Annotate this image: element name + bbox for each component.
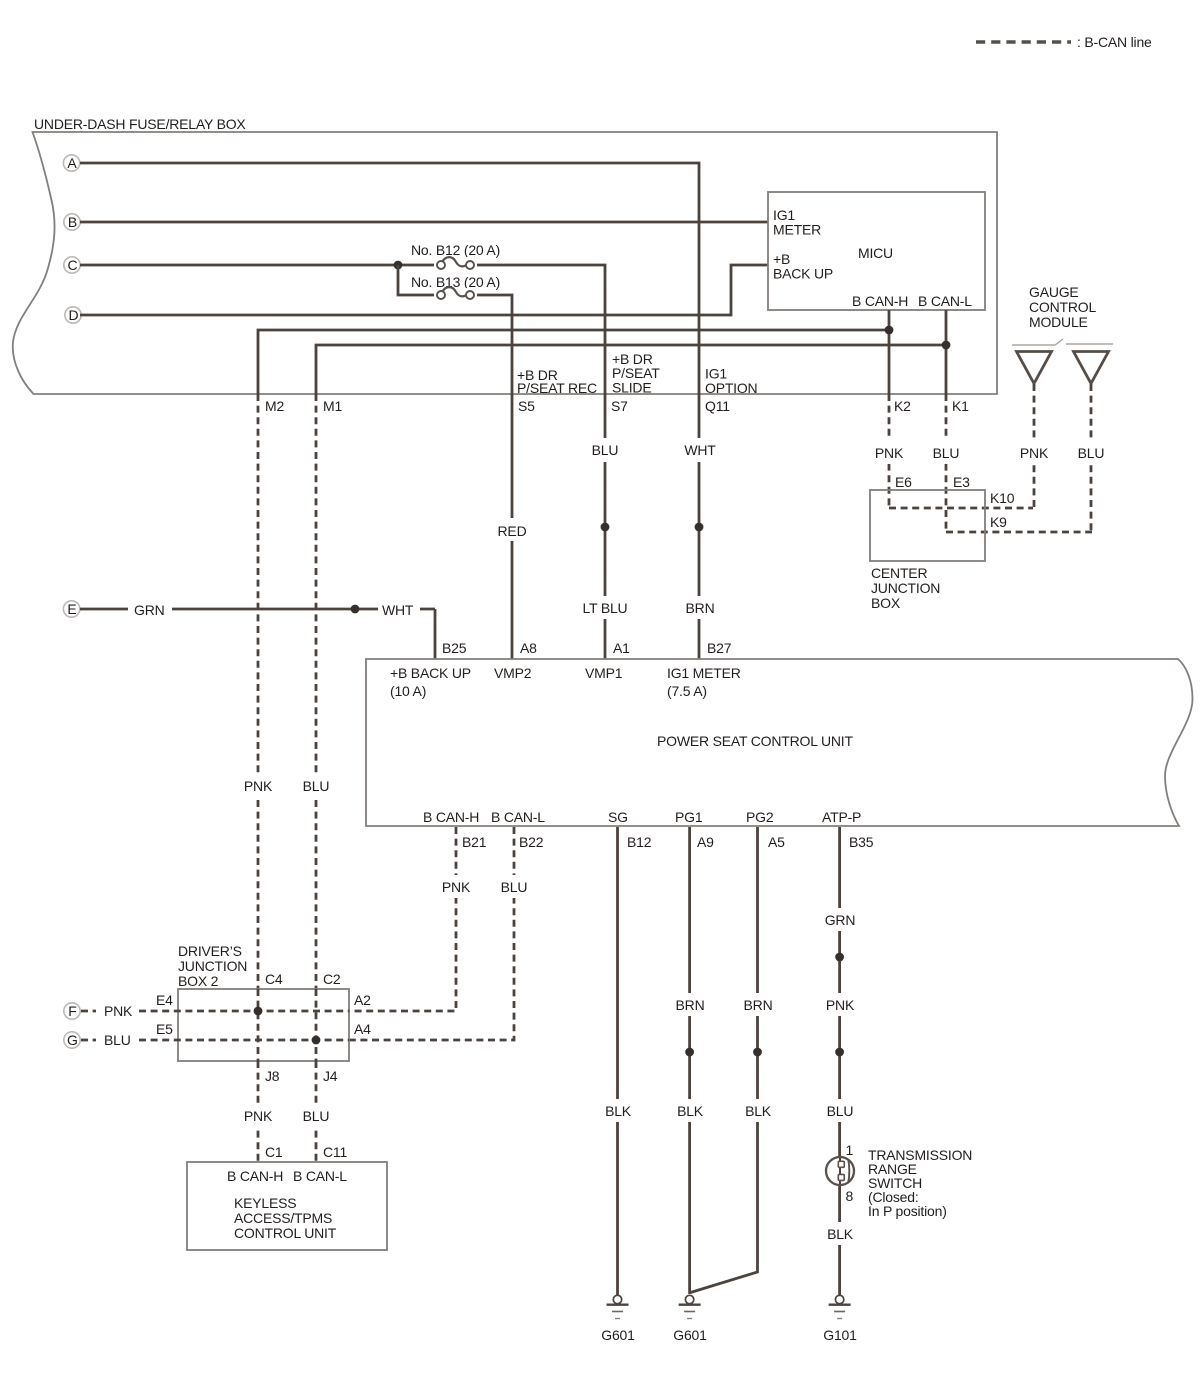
K1 dashed to center junction box E3 bbox=[945, 394, 948, 532]
svg-text:BACK UP: BACK UP bbox=[773, 266, 833, 282]
svg-text:B CAN-L: B CAN-L bbox=[491, 809, 545, 825]
svg-text:BRN: BRN bbox=[686, 600, 715, 616]
svg-text:PNK: PNK bbox=[442, 879, 471, 895]
svg-text:B22: B22 bbox=[519, 834, 544, 850]
svg-text:K10: K10 bbox=[990, 490, 1015, 506]
wire B CAN-H to K2 bbox=[888, 310, 891, 394]
svg-text:BLU: BLU bbox=[592, 442, 619, 458]
svg-text:D: D bbox=[68, 307, 78, 323]
K10 dashed row bbox=[889, 507, 1033, 510]
svg-text:BLU: BLU bbox=[303, 1108, 330, 1124]
svg-text:B25: B25 bbox=[442, 640, 467, 656]
keyless access/TPMS control unit box bbox=[187, 1162, 387, 1250]
svg-text:MODULE: MODULE bbox=[1029, 314, 1088, 330]
svg-text:MICU: MICU bbox=[858, 245, 893, 261]
svg-text:BLK: BLK bbox=[827, 1226, 854, 1242]
wire Q11 below box (WHT / BRN) bbox=[698, 394, 701, 659]
svg-text:In P position): In P position) bbox=[868, 1203, 947, 1219]
svg-text:S7: S7 bbox=[611, 398, 628, 414]
svg-text:OPTION: OPTION bbox=[705, 380, 757, 396]
svg-text:C11: C11 bbox=[323, 1144, 347, 1160]
MICU box bbox=[768, 192, 985, 310]
node B CAN-L / M1 bbox=[942, 341, 951, 350]
svg-text:GRN: GRN bbox=[825, 912, 856, 928]
wire SG to ground bbox=[616, 827, 619, 1295]
wire D row to MICU +B BACK UP pin bbox=[80, 265, 768, 315]
terminal B bbox=[64, 214, 80, 230]
fuse No. B13 (20 A) bbox=[411, 274, 500, 304]
svg-text:J8: J8 bbox=[265, 1068, 280, 1084]
svg-text:POWER SEAT CONTROL UNIT: POWER SEAT CONTROL UNIT bbox=[657, 733, 853, 749]
G dashed to E5 and through box bbox=[139, 1039, 349, 1042]
svg-text:S5: S5 bbox=[518, 398, 535, 414]
svg-text:B21: B21 bbox=[462, 834, 487, 850]
wire M1 row bbox=[316, 345, 946, 394]
wire PG1 to ground bbox=[688, 827, 691, 1294]
svg-text:DRIVER’S: DRIVER’S bbox=[178, 943, 242, 959]
svg-text:PG1: PG1 bbox=[675, 809, 703, 825]
M2 dashed drop to DJB2 C4 bbox=[257, 394, 260, 989]
svg-text:P/SEAT REC: P/SEAT REC bbox=[517, 380, 597, 396]
BLK label on SG bbox=[600, 1099, 636, 1122]
svg-text:ACCESS/TPMS: ACCESS/TPMS bbox=[234, 1210, 332, 1226]
K9 dashed row bbox=[946, 531, 1092, 534]
under-dash fuse/relay box outline bbox=[13, 132, 997, 394]
svg-text:WHT: WHT bbox=[382, 602, 414, 618]
node C4/E4 bbox=[254, 1007, 263, 1016]
M1 dashed drop to DJB2 C2 bbox=[315, 394, 318, 989]
svg-text:A5: A5 bbox=[768, 834, 785, 850]
wire branch to fuse B13 bbox=[398, 265, 436, 295]
gauge PNK dashed drop bbox=[1033, 384, 1036, 508]
svg-text:G101: G101 bbox=[823, 1327, 857, 1343]
terminal D bbox=[65, 307, 81, 323]
svg-text:G601: G601 bbox=[601, 1327, 635, 1343]
GRN label on E row bbox=[128, 598, 172, 620]
wire B row to MICU IG1 METER pin bbox=[80, 221, 768, 224]
svg-text:KEYLESS: KEYLESS bbox=[234, 1195, 296, 1211]
node B CAN-H / M2 bbox=[885, 326, 894, 335]
node C2/E5 bbox=[312, 1036, 321, 1045]
transmission range switch bbox=[826, 1157, 854, 1185]
BLK label on PG2 bbox=[740, 1099, 776, 1122]
GRN label on ATP-P bbox=[820, 908, 859, 931]
svg-text:SG: SG bbox=[608, 809, 628, 825]
svg-text:PNK: PNK bbox=[875, 445, 904, 461]
PNK label on J8 bbox=[239, 1104, 277, 1127]
svg-text:Q11: Q11 bbox=[705, 398, 730, 414]
B21 dashed to DJB2 A2 bbox=[349, 827, 456, 1011]
svg-text:(7.5 A): (7.5 A) bbox=[667, 683, 707, 699]
svg-text:BRN: BRN bbox=[744, 997, 773, 1013]
BRN label on PG2 bbox=[739, 993, 776, 1016]
node ATP-P splice 2 bbox=[835, 1048, 844, 1057]
BLU label on M1 bbox=[298, 774, 334, 797]
svg-text:BOX: BOX bbox=[871, 595, 901, 611]
svg-text:B CAN-H: B CAN-H bbox=[852, 293, 908, 309]
svg-text:No. B12 (20 A): No. B12 (20 A) bbox=[411, 242, 500, 258]
svg-text:1: 1 bbox=[846, 1142, 854, 1158]
svg-text:SLIDE: SLIDE bbox=[612, 380, 651, 396]
wire A row to Q11 bbox=[80, 163, 699, 394]
wire switch to ground G101 bbox=[838, 1184, 841, 1295]
svg-text:B35: B35 bbox=[849, 834, 874, 850]
svg-text:VMP1: VMP1 bbox=[585, 665, 623, 681]
svg-text:LT BLU: LT BLU bbox=[583, 600, 628, 616]
B22 dashed to DJB2 A4 bbox=[349, 827, 514, 1040]
svg-text:K1: K1 bbox=[952, 398, 969, 414]
LT BLU label on S7 bbox=[580, 596, 631, 619]
svg-text:BLU: BLU bbox=[933, 445, 960, 461]
svg-text:K2: K2 bbox=[894, 398, 911, 414]
svg-text:M1: M1 bbox=[323, 398, 342, 414]
svg-text:8: 8 bbox=[846, 1188, 854, 1204]
svg-text:BLK: BLK bbox=[677, 1103, 704, 1119]
svg-text:RED: RED bbox=[498, 523, 527, 539]
svg-text:BLU: BLU bbox=[104, 1032, 131, 1048]
node E row splice bbox=[351, 605, 360, 614]
svg-text:A8: A8 bbox=[520, 640, 537, 656]
svg-text:J4: J4 bbox=[323, 1068, 338, 1084]
svg-text:(10 A): (10 A) bbox=[390, 683, 426, 699]
wire S5 below box (RED) bbox=[511, 394, 514, 659]
svg-text:CONTROL: CONTROL bbox=[1029, 299, 1096, 315]
svg-text:B CAN-L: B CAN-L bbox=[918, 293, 972, 309]
node Q11 splice bbox=[695, 523, 704, 532]
F dashed to E4 and through box bbox=[139, 1010, 349, 1013]
gauge antenna 2 bbox=[1074, 352, 1109, 384]
node PG1 splice bbox=[685, 1048, 694, 1057]
G dashed lead bbox=[81, 1039, 96, 1042]
PNK label on ATP-P bbox=[821, 993, 858, 1016]
fuse No. B12 (20 A) bbox=[411, 242, 500, 274]
svg-text:BLK: BLK bbox=[745, 1103, 772, 1119]
svg-text:UNDER-DASH FUSE/RELAY BOX: UNDER-DASH FUSE/RELAY BOX bbox=[34, 116, 246, 132]
svg-text:A: A bbox=[67, 155, 77, 171]
svg-text:CENTER: CENTER bbox=[871, 565, 927, 581]
svg-text:G: G bbox=[67, 1032, 78, 1048]
svg-text:E4: E4 bbox=[156, 992, 173, 1008]
svg-text:BRN: BRN bbox=[676, 997, 705, 1013]
svg-text:PG2: PG2 bbox=[746, 809, 774, 825]
svg-text:JUNCTION: JUNCTION bbox=[871, 580, 940, 596]
wire B CAN-L to K1 bbox=[945, 310, 948, 394]
wire fuse B13 output to S5 drop bbox=[475, 295, 512, 394]
svg-text:M2: M2 bbox=[265, 398, 284, 414]
wire WHT drop to B25 bbox=[434, 609, 437, 659]
wire M2 row bbox=[258, 330, 889, 394]
svg-text:C: C bbox=[67, 257, 77, 273]
svg-text:PNK: PNK bbox=[1020, 445, 1049, 461]
WHT label on E row bbox=[378, 598, 420, 620]
wire color labels row y=455 bbox=[585, 438, 1109, 464]
svg-text:PNK: PNK bbox=[244, 778, 273, 794]
gauge antenna 1 bbox=[1017, 352, 1052, 384]
svg-text:B27: B27 bbox=[707, 640, 732, 656]
BLK label on PG1 bbox=[672, 1099, 708, 1122]
BLU label on B22 bbox=[496, 875, 532, 898]
PNK label on M2 bbox=[239, 774, 277, 797]
svg-text:A9: A9 bbox=[697, 834, 714, 850]
wire PG2 with diagonal join bbox=[691, 827, 758, 1293]
svg-text:PNK: PNK bbox=[244, 1108, 273, 1124]
PNK label on B21 bbox=[438, 875, 475, 898]
terminal C bbox=[64, 257, 80, 273]
C4 dashed inside box to J8 bbox=[257, 989, 260, 1061]
wire E row bbox=[80, 608, 435, 611]
F dashed lead bbox=[81, 1010, 96, 1013]
svg-text:BLU: BLU bbox=[501, 879, 528, 895]
terminal E bbox=[63, 601, 79, 617]
node S7 splice bbox=[601, 523, 610, 532]
node ATP-P splice 1 bbox=[835, 953, 844, 962]
svg-text:PNK: PNK bbox=[104, 1003, 133, 1019]
svg-text:GRN: GRN bbox=[134, 602, 165, 618]
J4 dashed to keyless C11 bbox=[315, 1061, 318, 1162]
svg-text:BOX 2: BOX 2 bbox=[178, 973, 219, 989]
svg-text:+B BACK UP: +B BACK UP bbox=[390, 665, 471, 681]
BRN label on Q11 bbox=[682, 596, 719, 619]
terminal G bbox=[64, 1032, 80, 1048]
svg-text:B CAN-L: B CAN-L bbox=[293, 1168, 347, 1184]
svg-text:VMP2: VMP2 bbox=[494, 665, 532, 681]
svg-text:PNK: PNK bbox=[826, 997, 855, 1013]
svg-text:BLU: BLU bbox=[1078, 445, 1105, 461]
RED label on S5 bbox=[495, 518, 530, 541]
svg-text:B12: B12 bbox=[627, 834, 652, 850]
BLK label on G101 wire bbox=[822, 1222, 858, 1245]
J8 dashed to keyless C1 bbox=[257, 1061, 260, 1162]
svg-text:B CAN-H: B CAN-H bbox=[227, 1168, 283, 1184]
svg-text:C2: C2 bbox=[323, 971, 341, 987]
svg-text:E6: E6 bbox=[895, 474, 912, 490]
wire S7 below box (BLU / LT BLU) bbox=[604, 394, 607, 659]
power seat control unit box bbox=[366, 659, 1193, 826]
svg-text:No. B13 (20 A): No. B13 (20 A) bbox=[411, 274, 500, 290]
svg-text:METER: METER bbox=[773, 222, 821, 238]
svg-text:ATP-P: ATP-P bbox=[822, 809, 861, 825]
svg-text:BLU: BLU bbox=[827, 1103, 854, 1119]
wire C row to fuse B12 bbox=[80, 264, 436, 267]
svg-text:E5: E5 bbox=[156, 1021, 173, 1037]
svg-text:CONTROL UNIT: CONTROL UNIT bbox=[234, 1225, 337, 1241]
node PG2 splice bbox=[753, 1048, 762, 1057]
ground G601 (PG1/PG2) bbox=[673, 1295, 707, 1343]
svg-text:E: E bbox=[67, 601, 76, 617]
terminal A bbox=[63, 155, 79, 171]
center junction box bbox=[870, 490, 985, 561]
svg-text:K9: K9 bbox=[990, 514, 1007, 530]
svg-text:BLK: BLK bbox=[605, 1103, 632, 1119]
svg-text:: B-CAN line: : B-CAN line bbox=[1077, 34, 1152, 50]
gauge control module bracket bbox=[1012, 339, 1113, 345]
svg-text:C1: C1 bbox=[265, 1144, 283, 1160]
gauge BLU dashed drop bbox=[1090, 384, 1093, 532]
C2 dashed inside box to J4 bbox=[315, 989, 318, 1061]
node fuse branch bbox=[394, 261, 403, 270]
svg-text:F: F bbox=[68, 1003, 76, 1019]
svg-text:A4: A4 bbox=[354, 1021, 371, 1037]
driver's junction box 2 bbox=[178, 989, 349, 1061]
svg-text:IG1 METER: IG1 METER bbox=[667, 665, 741, 681]
svg-text:G601: G601 bbox=[673, 1327, 707, 1343]
svg-text:BLU: BLU bbox=[303, 778, 330, 794]
svg-text:B: B bbox=[68, 214, 77, 230]
legend B-CAN dashed line bbox=[976, 34, 1152, 50]
K2 dashed to center junction box E6 bbox=[888, 394, 891, 508]
svg-text:C4: C4 bbox=[265, 971, 283, 987]
svg-text:WHT: WHT bbox=[684, 442, 716, 458]
ground G601 (SG) bbox=[601, 1295, 635, 1343]
ground G101 (ATP-P) bbox=[823, 1295, 857, 1343]
svg-text:A2: A2 bbox=[354, 992, 371, 1008]
BLU label on J4 bbox=[298, 1104, 334, 1127]
svg-text:B CAN-H: B CAN-H bbox=[423, 809, 479, 825]
terminal F bbox=[64, 1003, 80, 1019]
svg-text:GAUGE: GAUGE bbox=[1029, 284, 1079, 300]
BLU label on ATP-P bbox=[822, 1099, 858, 1122]
wire ATP-P to switch bbox=[838, 827, 841, 1158]
svg-text:E3: E3 bbox=[953, 474, 970, 490]
wire fuse B12 output to S7 drop bbox=[475, 265, 605, 394]
svg-text:JUNCTION: JUNCTION bbox=[178, 958, 247, 974]
svg-text:A1: A1 bbox=[613, 640, 630, 656]
BRN label on PG1 bbox=[671, 993, 708, 1016]
